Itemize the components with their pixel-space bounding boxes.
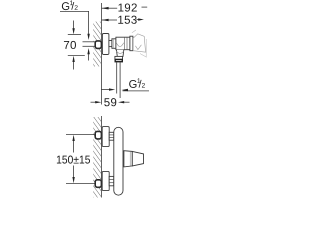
handle front faint edge	[145, 39, 147, 58]
dimension 70 upper arrow (points down)	[73, 21, 75, 30]
wall face / extension line (top view)	[100, 3, 102, 105]
upper union nut (bottom view)	[109, 132, 114, 140]
mixer body capsule (bottom view)	[114, 127, 123, 195]
dimension 153 line	[102, 19, 117, 21]
dimension 59 left arrow (points right)	[95, 101, 101, 103]
dimension 192 left arrow	[102, 7, 109, 10]
dimension 153 right arrow	[138, 18, 144, 20]
cartridge end cap (top view)	[130, 36, 133, 51]
handle inner V mark	[135, 45, 141, 50]
wall face line (bottom view)	[100, 116, 102, 198]
dimension 150±15 upper arrow (points up)	[72, 135, 74, 141]
dimension 70 lower arrow (points up)	[73, 61, 75, 70]
body separation lines	[124, 37, 126, 50]
G 1/2 label (lower, at outlet)	[129, 78, 145, 88]
outlet collar	[115, 56, 123, 59]
wall hatching (top view)	[93, 22, 101, 67]
outlet elbow inner arc	[117, 51, 124, 53]
dimension 153 left arrow	[102, 19, 109, 22]
upper escutcheon (bottom view)	[102, 127, 109, 147]
dimension 59 line left segment	[91, 101, 96, 103]
handle outline (top view, thin)	[133, 34, 145, 52]
dimension 150±15 label	[57, 156, 90, 164]
dimension 153 label	[118, 16, 136, 24]
dimension 150±15 lower arrow (points down)	[72, 177, 74, 183]
G 1/2 leader underline	[60, 11, 89, 34]
outlet nipple (dark)	[115, 60, 122, 62]
dimension 70 top extension line	[68, 34, 81, 36]
union nut (top view)	[112, 39, 116, 49]
body inner arc	[116, 43, 123, 47]
dimension 70 label	[64, 41, 76, 49]
outlet elbow (top view)	[116, 50, 123, 57]
dimension 59 label	[104, 98, 116, 106]
union cylinder (top view)	[109, 41, 112, 47]
wall hatching (bottom view)	[93, 117, 101, 198]
G 1/2 leader arrow (down)	[87, 34, 89, 40]
lower union nut (bottom view)	[109, 176, 114, 185]
handle collar inner line	[129, 151, 131, 166]
supply pipe in wall	[83, 42, 96, 47]
lower wall union ring (bottom view)	[95, 180, 101, 188]
handle top small line	[132, 30, 136, 33]
G 1/2 label (top)	[62, 1, 78, 11]
handle grip (bottom view)	[132, 151, 143, 166]
dimension 59 right arrow (points left)	[118, 101, 124, 103]
escutcheon (top view)	[102, 34, 109, 55]
dimension 192 line	[102, 7, 117, 9]
upper wall union ring (bottom view)	[95, 131, 101, 139]
dimension 150±15 line lower	[73, 166, 75, 179]
lower union extension line	[66, 182, 95, 184]
lower escutcheon (bottom view)	[102, 171, 109, 190]
dimension 150±15 line upper	[73, 141, 75, 153]
outlet left arrow (points right)	[101, 89, 109, 91]
wall union ring (top view)	[95, 41, 101, 49]
outlet thread extension lines	[116, 62, 118, 94]
mixer body (top view)	[116, 37, 130, 50]
handle bottom-right faint diagonal	[140, 54, 146, 57]
inner arrow pointing up at connection (below)	[88, 54, 90, 61]
G 1/2 lower leader underline	[123, 90, 150, 92]
dimension 70 bottom extension line	[68, 55, 85, 57]
G 1/2 lower leader arrow (points left)	[122, 89, 128, 91]
dimension 192 label	[118, 3, 136, 11]
dimension 59 line right segment	[124, 101, 130, 103]
upper union extension line	[66, 134, 95, 136]
handle collar (bottom view)	[124, 151, 132, 167]
